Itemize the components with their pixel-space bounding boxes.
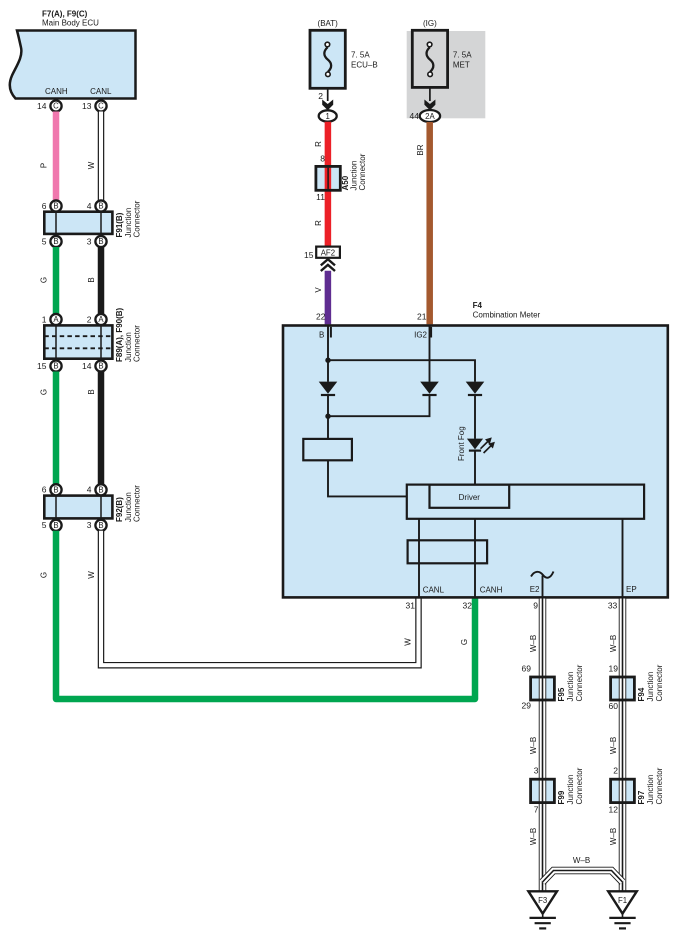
svg-text:7: 7: [534, 805, 539, 815]
svg-text:MET: MET: [453, 61, 470, 70]
svg-text:2: 2: [613, 766, 618, 776]
svg-text:AF2: AF2: [321, 248, 335, 257]
svg-text:4: 4: [87, 485, 92, 495]
E2 squiggle: [531, 572, 554, 578]
svg-text:CANL: CANL: [423, 586, 445, 595]
svg-text:7. 5A: 7. 5A: [453, 51, 472, 60]
diode D3: [466, 382, 485, 395]
svg-text:Connector: Connector: [575, 767, 584, 804]
arrow down: [322, 100, 333, 111]
wire D2 to node: [328, 395, 430, 416]
svg-text:1: 1: [326, 112, 330, 121]
svg-text:B: B: [87, 389, 96, 394]
shield chevrons: [321, 259, 335, 265]
wire across to right diode: [328, 360, 475, 382]
svg-text:A: A: [53, 315, 59, 324]
label F99 Junction Connector: [557, 767, 584, 804]
node below D1: [325, 414, 330, 419]
svg-text:F97: F97: [637, 790, 646, 804]
LED Front Fog: [467, 437, 495, 453]
svg-text:W–B: W–B: [529, 737, 538, 754]
F99 box border: [531, 779, 555, 802]
label F95 Junction Connector: [557, 664, 584, 701]
svg-text:G: G: [460, 639, 469, 645]
svg-text:B: B: [98, 202, 103, 211]
svg-text:32: 32: [463, 601, 473, 611]
pin 3 B: [95, 236, 106, 247]
wire D3 to LED: [474, 395, 476, 439]
svg-text:(BAT): (BAT): [318, 19, 339, 28]
svg-text:31: 31: [406, 601, 416, 611]
pin 1 A: [50, 314, 61, 325]
svg-text:7. 5A: 7. 5A: [351, 51, 370, 60]
svg-text:3: 3: [534, 766, 539, 776]
arrow down: [424, 100, 435, 111]
svg-text:B: B: [53, 237, 58, 246]
svg-text:14: 14: [82, 361, 92, 371]
svg-text:B: B: [53, 486, 58, 495]
svg-text:B: B: [98, 237, 103, 246]
svg-text:Connector: Connector: [132, 200, 141, 237]
junction connector A50: [316, 166, 340, 190]
svg-text:CANH: CANH: [45, 87, 68, 96]
diode D1: [319, 382, 338, 395]
svg-text:C: C: [98, 102, 104, 111]
svg-text:69: 69: [522, 663, 532, 673]
svg-text:B: B: [319, 330, 324, 339]
svg-text:CANH: CANH: [480, 586, 503, 595]
svg-text:F4: F4: [473, 301, 483, 310]
svg-text:Connector: Connector: [132, 485, 141, 522]
svg-text:W: W: [404, 638, 413, 646]
svg-text:R: R: [314, 141, 323, 147]
svg-text:W–B: W–B: [573, 856, 590, 865]
label F89(A), F90(B) Junction Connector: [115, 307, 141, 362]
svg-text:15: 15: [304, 250, 314, 260]
svg-text:F95: F95: [557, 687, 566, 701]
svg-text:B: B: [98, 521, 103, 530]
internal wire from IG2: [429, 326, 431, 382]
svg-text:B: B: [87, 277, 96, 282]
svg-text:W: W: [87, 161, 96, 169]
internal wire from B: [327, 326, 329, 382]
svg-text:Junction: Junction: [566, 672, 575, 702]
junction connector F91(B): [44, 212, 112, 234]
svg-text:G: G: [40, 572, 49, 578]
svg-text:3: 3: [87, 236, 92, 246]
label F92(B) Junction Connector: [115, 485, 141, 522]
svg-text:6: 6: [42, 201, 47, 211]
W-B crosslink wire: [543, 871, 623, 883]
svg-text:A: A: [98, 315, 104, 324]
CAN block: [408, 540, 488, 563]
svg-text:5: 5: [42, 520, 47, 530]
svg-text:G: G: [40, 277, 49, 283]
svg-text:W–B: W–B: [529, 828, 538, 845]
svg-text:W–B: W–B: [609, 828, 618, 845]
pin 2 A: [95, 314, 106, 325]
fuse (IG) 7.5A MET: [412, 30, 447, 87]
svg-text:2: 2: [318, 91, 323, 101]
pin 14 C: [50, 100, 61, 111]
svg-text:W–B: W–B: [529, 635, 538, 652]
pin 5 B: [50, 236, 61, 247]
svg-text:F1: F1: [618, 896, 627, 905]
ground F3: [528, 891, 557, 928]
pin 6 B: [50, 484, 61, 495]
wire LED to driver: [474, 451, 476, 485]
svg-text:14: 14: [37, 101, 47, 111]
svg-text:F3: F3: [538, 896, 547, 905]
wire R red: [325, 122, 332, 247]
label F91(B) Junction Connector: [115, 200, 141, 237]
svg-text:Connector: Connector: [132, 325, 141, 362]
wire G green: [53, 372, 60, 485]
junction connector F99 box fill: [531, 779, 555, 802]
wire G green long run to CANH: [56, 531, 475, 699]
svg-text:IG2: IG2: [414, 330, 427, 339]
svg-text:V: V: [314, 287, 323, 293]
wire G green: [53, 247, 60, 314]
driver inner block: [430, 485, 510, 508]
wire V violet: [325, 271, 332, 325]
wire to driver: [328, 460, 407, 496]
wire W-B EP to ground F1: [619, 599, 627, 892]
svg-text:Front Fog: Front Fog: [457, 426, 466, 461]
svg-text:C: C: [53, 102, 59, 111]
svg-text:W–B: W–B: [609, 635, 618, 652]
diode D2: [420, 382, 439, 395]
svg-text:F7(A), F9(C): F7(A), F9(C): [42, 10, 88, 19]
svg-text:Connector: Connector: [358, 153, 367, 190]
svg-text:R: R: [314, 220, 323, 226]
driver outer block: [407, 485, 644, 519]
pin 3 B: [95, 520, 106, 531]
junction connector F95 box fill: [531, 677, 555, 700]
svg-text:B: B: [53, 362, 58, 371]
svg-text:Combination Meter: Combination Meter: [473, 311, 541, 320]
svg-text:11: 11: [316, 192, 325, 202]
junction connector F92(B): [44, 496, 112, 519]
svg-text:CANL: CANL: [90, 87, 112, 96]
wire driver to EP: [622, 519, 624, 598]
wire BR brown: [426, 122, 433, 324]
wire driver to CANH: [474, 519, 476, 598]
svg-text:60: 60: [609, 701, 619, 711]
svg-text:12: 12: [609, 805, 619, 815]
svg-text:13: 13: [82, 101, 92, 111]
wire driver to CANL: [418, 519, 420, 598]
label F97 Junction Connector: [637, 767, 664, 804]
junction connector F97 box fill: [611, 779, 635, 802]
svg-text:44: 44: [410, 111, 420, 121]
svg-text:B: B: [53, 521, 58, 530]
label F94 Junction Connector: [637, 664, 664, 701]
wire B black: [98, 247, 105, 314]
pin 13 C: [95, 100, 106, 111]
svg-text:Driver: Driver: [459, 493, 481, 502]
svg-text:Connector: Connector: [575, 664, 584, 701]
svg-text:29: 29: [522, 701, 532, 711]
svg-text:1: 1: [42, 314, 47, 324]
wire W-B E2 to ground F3: [539, 599, 547, 892]
svg-text:8: 8: [320, 154, 325, 164]
svg-text:(IG): (IG): [423, 19, 437, 28]
F95 box border: [531, 677, 555, 700]
junction connector F94 box fill: [611, 677, 635, 700]
F94 box border: [611, 677, 635, 700]
svg-text:2: 2: [87, 314, 92, 324]
fuse (IG) background gray panel: [407, 31, 486, 118]
wire W white long run to CANL: [101, 531, 419, 665]
wire below D1: [327, 395, 329, 439]
svg-text:6: 6: [42, 485, 47, 495]
svg-text:B: B: [98, 362, 103, 371]
svg-text:F94: F94: [637, 687, 646, 701]
pin 5 B: [50, 520, 61, 531]
pin 4 B: [95, 484, 106, 495]
svg-text:EP: EP: [626, 585, 637, 594]
svg-text:ECU–B: ECU–B: [351, 61, 378, 70]
pin 6 B: [50, 200, 61, 211]
svg-text:3: 3: [87, 520, 92, 530]
svg-text:BR: BR: [416, 144, 425, 155]
svg-text:9: 9: [533, 600, 538, 610]
svg-text:P: P: [40, 163, 49, 168]
wire B black: [98, 372, 105, 485]
svg-text:B: B: [53, 202, 58, 211]
ECU F7/F9 Main Body ECU box: [10, 31, 136, 99]
oval terminal 1: [319, 110, 337, 121]
wire fuse output: [429, 87, 431, 101]
svg-text:W: W: [87, 571, 96, 579]
svg-text:Main Body ECU: Main Body ECU: [42, 19, 99, 28]
svg-text:Connector: Connector: [655, 664, 664, 701]
label A50 Junction Connector: [341, 153, 367, 190]
component block (meter): [303, 439, 352, 460]
pin 14 B: [95, 360, 106, 371]
svg-text:Junction: Junction: [646, 672, 655, 702]
svg-text:F99: F99: [557, 790, 566, 804]
svg-text:Junction: Junction: [646, 775, 655, 805]
svg-text:15: 15: [37, 361, 47, 371]
svg-text:Connector: Connector: [655, 767, 664, 804]
svg-text:33: 33: [608, 600, 618, 610]
svg-text:22: 22: [316, 312, 326, 322]
pin 4 B: [95, 200, 106, 211]
node on B line: [325, 358, 330, 363]
wire W white CANL: [98, 112, 105, 201]
svg-text:19: 19: [609, 663, 619, 673]
svg-text:5: 5: [42, 236, 47, 246]
svg-text:4: 4: [87, 201, 92, 211]
svg-text:Junction: Junction: [566, 775, 575, 805]
svg-text:2A: 2A: [425, 112, 435, 121]
junction connector F89(A), F90(B): [44, 325, 112, 358]
svg-text:G: G: [40, 389, 49, 395]
wire fuse output: [327, 88, 329, 101]
F97 box border: [611, 779, 635, 802]
terminal divider ticks top: [330, 327, 332, 338]
svg-text:W–B: W–B: [609, 737, 618, 754]
ground F1: [608, 891, 637, 928]
svg-text:E2: E2: [530, 585, 540, 594]
wire P pink CANH: [53, 112, 60, 201]
svg-text:B: B: [98, 486, 103, 495]
pin 15 B: [50, 360, 61, 371]
svg-text:21: 21: [417, 312, 427, 322]
